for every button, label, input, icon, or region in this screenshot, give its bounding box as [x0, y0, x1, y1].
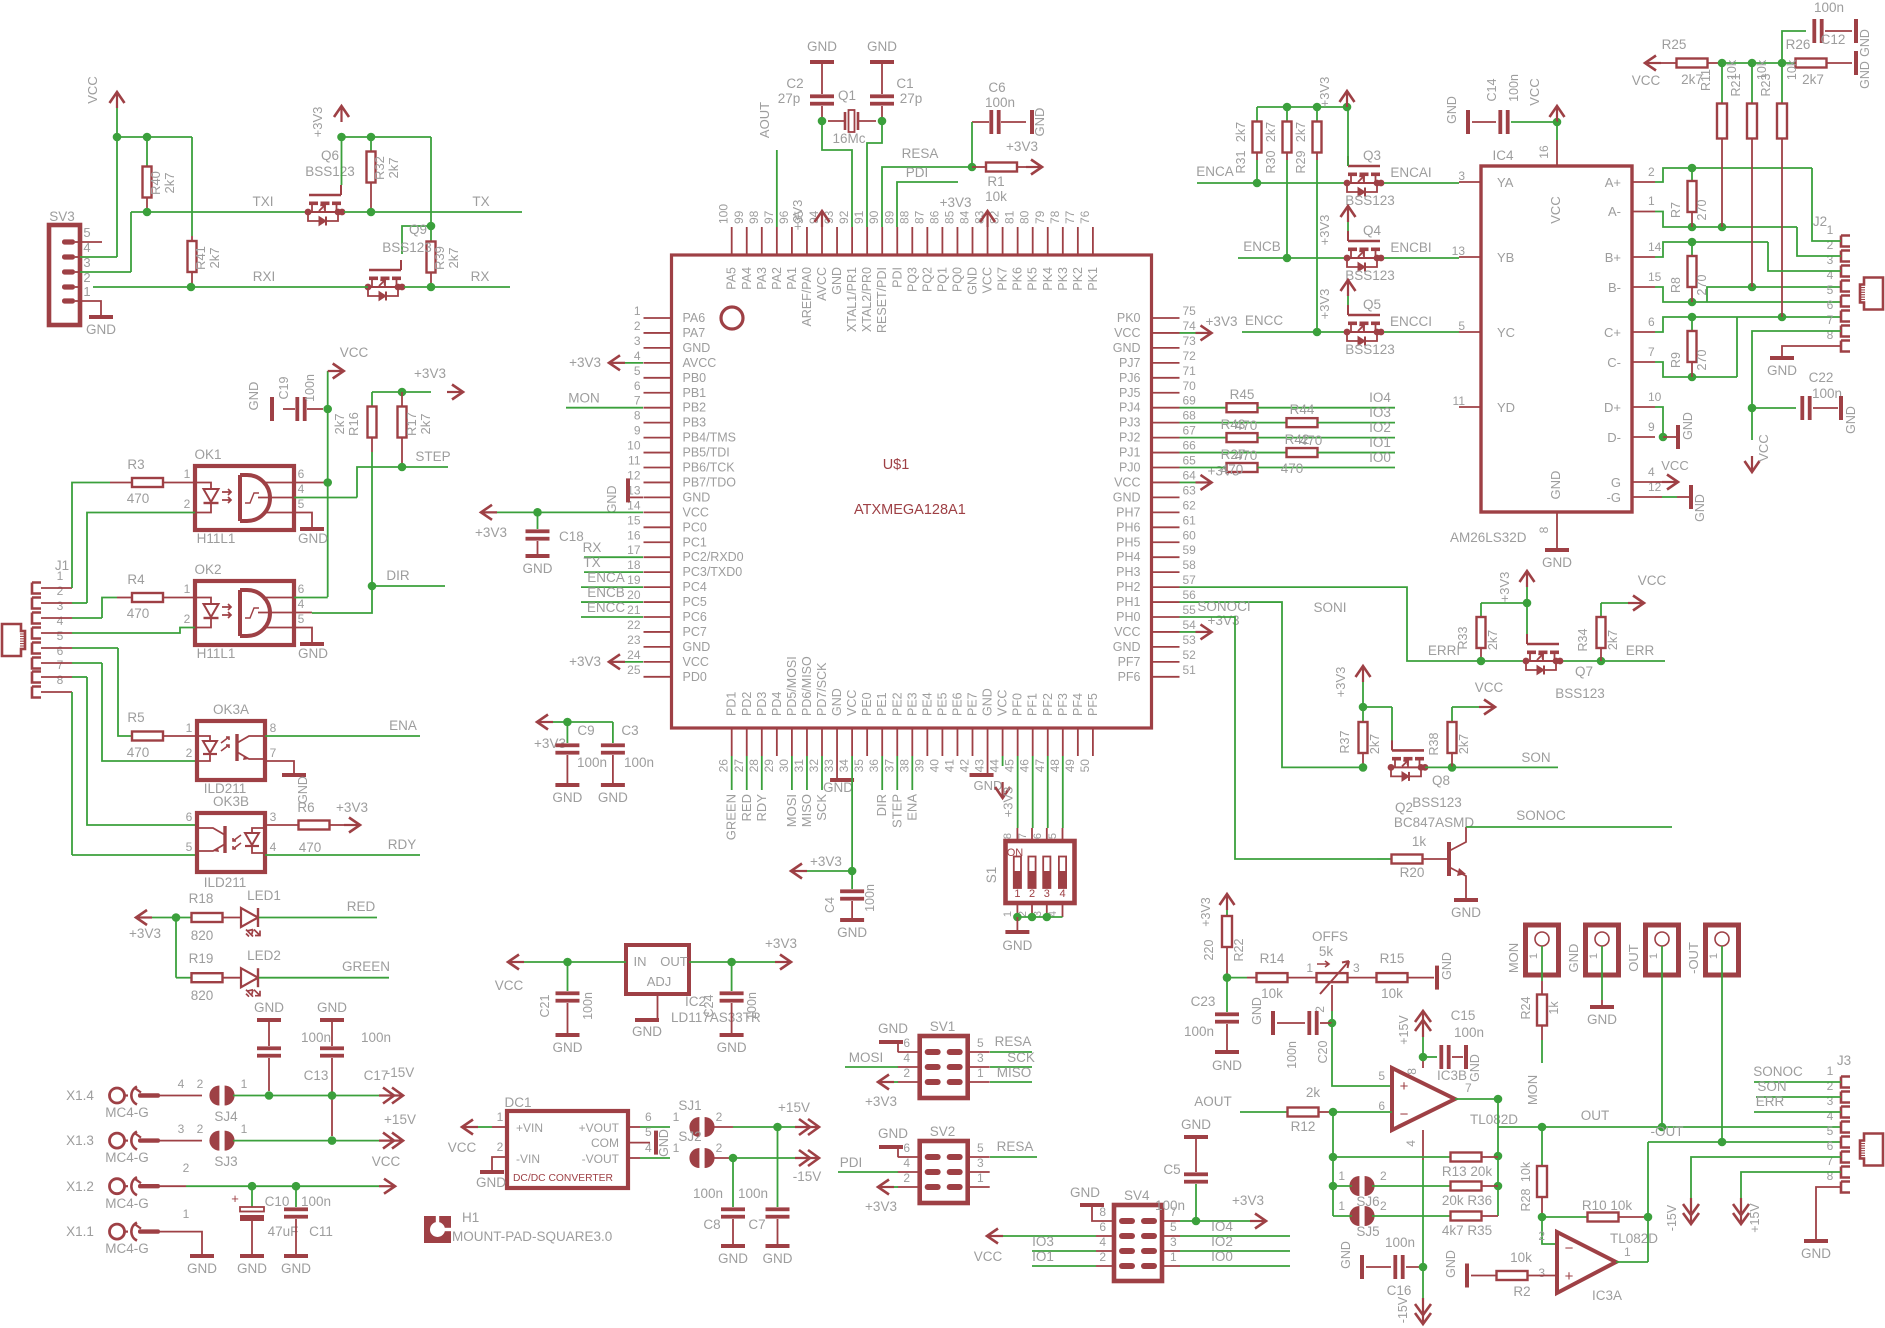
svg-text:47uF: 47uF — [268, 1224, 299, 1239]
resistor R8 270 — [1669, 242, 1709, 302]
svg-text:R29: R29 — [1294, 150, 1308, 173]
svg-text:MOUNT-PAD-SQUARE3.0: MOUNT-PAD-SQUARE3.0 — [452, 1229, 612, 1244]
wire DC1 pin1 VCC — [462, 1110, 507, 1127]
IC4 pin16 VCC — [1553, 118, 1562, 166]
svg-text:C8: C8 — [703, 1217, 720, 1232]
svg-text:8: 8 — [634, 409, 641, 423]
svg-text:PQ3: PQ3 — [905, 267, 919, 292]
jumper SJ6 — [1333, 1169, 1450, 1209]
wire Q4 gate — [1347, 222, 1349, 241]
net ENCA wire — [1196, 164, 1347, 187]
svg-text:3: 3 — [1458, 169, 1465, 183]
svg-text:7: 7 — [1017, 833, 1029, 839]
svg-text:22: 22 — [627, 618, 641, 632]
transistor Q9 BSS123 — [365, 222, 432, 301]
svg-text:PE3: PE3 — [905, 692, 919, 716]
net IO4 SV4 — [1180, 1219, 1290, 1236]
wire J1 pin6 — [41, 663, 197, 761]
ground R2 — [1444, 1250, 1467, 1287]
svg-text:8: 8 — [1537, 526, 1551, 533]
svg-text:IO1: IO1 — [1032, 1249, 1054, 1264]
capacitor C16 100n — [1366, 1235, 1427, 1298]
wire Q9 gate elbow — [402, 226, 431, 254]
svg-text:7: 7 — [1465, 1081, 1472, 1095]
svg-text:100n: 100n — [1454, 1025, 1484, 1040]
svg-text:2k7: 2k7 — [1802, 72, 1824, 87]
wire fb column — [1329, 1112, 1338, 1216]
net ENCB wire — [1238, 239, 1347, 262]
svg-text:GND: GND — [763, 1251, 793, 1266]
svg-text:70: 70 — [1183, 379, 1197, 393]
wire pin47 to S1 — [1047, 756, 1049, 828]
svg-text:+3V3: +3V3 — [129, 926, 161, 941]
svg-text:3: 3 — [977, 1156, 984, 1170]
svg-text:2: 2 — [1029, 888, 1035, 900]
svg-text:GND: GND — [878, 1126, 908, 1141]
net SONOCI — [1180, 599, 1378, 859]
wire J2 pin7 — [1748, 331, 1841, 412]
svg-text:PE6: PE6 — [950, 692, 964, 716]
svg-text:VCC: VCC — [845, 690, 859, 716]
svg-text:100n: 100n — [577, 755, 607, 770]
svg-text:ATXMEGA128A1: ATXMEGA128A1 — [854, 502, 966, 518]
resistor R39 — [427, 226, 462, 287]
svg-text:R23: R23 — [1759, 73, 1773, 96]
svg-text:+3V3: +3V3 — [865, 1094, 897, 1109]
svg-text:LED2: LED2 — [247, 948, 281, 963]
svg-text:+3V3: +3V3 — [810, 854, 842, 869]
node crystal right — [878, 117, 887, 126]
svg-text:2: 2 — [186, 746, 193, 760]
svg-text:C4: C4 — [823, 897, 837, 913]
svg-text:+3V3: +3V3 — [865, 1199, 897, 1214]
svg-text:9: 9 — [634, 424, 641, 438]
op-amp U$1 outline — [672, 255, 1152, 728]
svg-text:PE2: PE2 — [890, 692, 904, 716]
wire DC1 pin4 — [628, 1141, 670, 1158]
ground C9 — [552, 785, 582, 805]
svg-text:6: 6 — [1827, 1139, 1834, 1153]
svg-text:100n: 100n — [301, 1194, 331, 1209]
svg-text:2: 2 — [1099, 1250, 1106, 1264]
capacitor C1 27p — [870, 62, 922, 117]
VCC symbol top-left — [85, 76, 125, 108]
U$1 left pins — [627, 304, 744, 684]
resistor R25 2k7 — [1661, 37, 1722, 87]
svg-text:GND: GND — [298, 531, 328, 546]
svg-text:2k7: 2k7 — [207, 248, 222, 269]
+3V3 arrow pin74 — [1180, 314, 1238, 341]
svg-text:XTAL1/PR1: XTAL1/PR1 — [845, 267, 859, 332]
svg-text:86: 86 — [927, 210, 941, 224]
svg-text:10: 10 — [1648, 390, 1662, 404]
optocoupler OK1 H11L1 — [184, 447, 305, 546]
svg-text:8: 8 — [1099, 1205, 1106, 1219]
+3V3 arrow Q7 — [1497, 571, 1535, 602]
svg-text:PD6/MISO: PD6/MISO — [800, 656, 814, 716]
svg-text:ENCB: ENCB — [1243, 239, 1281, 254]
svg-text:17: 17 — [627, 543, 641, 557]
svg-text:RESA: RESA — [995, 1034, 1032, 1049]
svg-text:100n: 100n — [863, 884, 877, 912]
svg-text:31: 31 — [792, 759, 806, 773]
svg-text:71: 71 — [1183, 364, 1197, 378]
svg-text:GND: GND — [1032, 108, 1047, 137]
net ERRI — [1180, 587, 1666, 661]
net PDI SV2 — [838, 1155, 898, 1172]
svg-text:6: 6 — [1099, 1220, 1106, 1234]
net MON pin7 — [566, 391, 643, 408]
svg-text:PQ0: PQ0 — [950, 267, 964, 292]
svg-text:LED1: LED1 — [247, 888, 281, 903]
svg-text:+3V3: +3V3 — [310, 107, 325, 138]
svg-text:RESA: RESA — [997, 1139, 1034, 1154]
+3V3 arrow Q6 — [310, 106, 349, 137]
+3V3 arrow pin54 — [1180, 613, 1240, 640]
svg-text:PC2/RXD0: PC2/RXD0 — [683, 550, 744, 564]
resistor R23 10k — [1759, 59, 1799, 317]
svg-text:4: 4 — [645, 1141, 652, 1155]
svg-text:PB6/TCK: PB6/TCK — [683, 461, 736, 475]
svg-text:1: 1 — [183, 1207, 190, 1221]
svg-text:ENCC: ENCC — [1245, 313, 1284, 328]
svg-text:1: 1 — [83, 284, 90, 299]
svg-text:5: 5 — [1378, 1069, 1385, 1083]
svg-text:100n: 100n — [581, 992, 595, 1020]
svg-text:GND: GND — [830, 267, 844, 295]
svg-text:DIR: DIR — [386, 568, 410, 583]
net RESA wire — [902, 146, 972, 167]
net IO1 SV4 — [1032, 1249, 1096, 1266]
ground -G pin — [1655, 485, 1707, 522]
ground C22 — [1841, 396, 1858, 434]
svg-text:72: 72 — [1183, 349, 1197, 363]
svg-text:69: 69 — [1183, 394, 1197, 408]
svg-text:3: 3 — [57, 599, 64, 613]
svg-text:100n: 100n — [624, 755, 654, 770]
svg-text:IO3: IO3 — [1032, 1234, 1054, 1249]
svg-text:SJ2: SJ2 — [678, 1129, 701, 1144]
capacitor C14 100n — [1472, 74, 1557, 134]
svg-text:81: 81 — [1003, 210, 1017, 224]
svg-text:A-: A- — [1608, 204, 1621, 219]
+3V3 arrow Q8 — [1333, 666, 1371, 697]
svg-text:3: 3 — [270, 810, 277, 824]
svg-text:100n: 100n — [1812, 386, 1842, 401]
svg-text:GND: GND — [1445, 96, 1459, 124]
svg-text:1: 1 — [1588, 953, 1600, 959]
ground C19 — [246, 382, 272, 421]
svg-text:100n: 100n — [693, 1186, 723, 1201]
capacitor C20 100n — [1277, 1011, 1332, 1069]
wire OK1 pin4 STEP — [294, 497, 357, 499]
svg-text:PC1: PC1 — [683, 535, 707, 549]
+3V3 arrow R6 — [336, 800, 368, 833]
VCC arrow R38 — [1452, 680, 1503, 715]
svg-text:8: 8 — [1002, 833, 1014, 839]
wire pad OUT — [1661, 946, 1663, 1127]
svg-text:C1: C1 — [896, 76, 913, 91]
net IO3 SV4 — [1032, 1234, 1096, 1251]
svg-text:2: 2 — [903, 1066, 910, 1080]
svg-text:15: 15 — [1648, 270, 1662, 284]
net DIR pin36 — [874, 756, 889, 816]
svg-text:6: 6 — [186, 810, 193, 824]
svg-text:ENCA: ENCA — [587, 570, 625, 585]
svg-text:R19: R19 — [189, 951, 214, 966]
ground C7 — [763, 1246, 793, 1266]
net ENCC pin21 — [581, 600, 643, 617]
net ERR J3 — [1754, 1094, 1841, 1112]
transistor Q3 BSS123 — [1344, 148, 1395, 208]
svg-text:R38: R38 — [1427, 732, 1441, 755]
svg-text:VCC: VCC — [372, 1154, 401, 1169]
wire J2 pin8 gnd — [1767, 346, 1841, 378]
mount pad H1 — [424, 1210, 612, 1244]
svg-text:100n: 100n — [301, 1030, 331, 1045]
capacitor C3 100n — [601, 722, 654, 783]
svg-text:R12: R12 — [1291, 1119, 1316, 1134]
svg-text:GND: GND — [1468, 1054, 1482, 1082]
U$1 bottom pins — [717, 656, 1100, 772]
svg-text:10k: 10k — [1519, 1161, 1533, 1182]
svg-text:42: 42 — [958, 759, 972, 773]
svg-text:100: 100 — [717, 204, 731, 224]
wire Q8 gate — [1391, 707, 1393, 750]
SV3 pin5 stub — [80, 241, 102, 243]
VCC arrow IC4 — [1527, 78, 1565, 122]
svg-text:7: 7 — [1827, 313, 1834, 327]
svg-text:GND: GND — [246, 382, 261, 411]
svg-text:2k7: 2k7 — [1368, 734, 1382, 754]
svg-text:VCC: VCC — [85, 76, 100, 103]
resistor R35 4k7 — [1442, 1212, 1498, 1239]
svg-text:5: 5 — [634, 364, 641, 378]
wire TX segment — [344, 194, 522, 216]
svg-text:OUT: OUT — [660, 954, 688, 969]
svg-text:20: 20 — [627, 588, 641, 602]
wire J1 pin8 — [41, 692, 197, 855]
svg-text:C5: C5 — [1163, 1162, 1180, 1177]
+3V3 arrow SV4 — [1232, 1193, 1266, 1229]
svg-text:GND: GND — [1113, 640, 1141, 654]
svg-text:PF5: PF5 — [1086, 693, 1100, 716]
svg-text:RX: RX — [583, 540, 602, 555]
connector X1.3 MC4-G — [66, 1132, 160, 1165]
svg-text:PA5: PA5 — [725, 267, 739, 290]
svg-text:+3V3: +3V3 — [1006, 139, 1038, 154]
svg-text:VCC: VCC — [1475, 680, 1504, 695]
svg-text:PJ2: PJ2 — [1119, 431, 1141, 445]
svg-text:GND: GND — [981, 688, 995, 716]
svg-text:AVCC: AVCC — [683, 356, 717, 370]
svg-text:53: 53 — [1183, 633, 1197, 647]
svg-text:+3V3: +3V3 — [1317, 289, 1332, 320]
svg-text:C7: C7 — [748, 1217, 765, 1232]
svg-text:1: 1 — [241, 1077, 248, 1091]
svg-text:R41: R41 — [193, 246, 208, 270]
svg-text:BSS123: BSS123 — [1345, 193, 1395, 208]
jumper SJ2 — [673, 1129, 723, 1168]
svg-text:OFFS: OFFS — [1312, 929, 1348, 944]
S1 bottom stubs — [1002, 903, 1063, 917]
ground C15 — [1466, 1045, 1482, 1082]
svg-text:DC1: DC1 — [504, 1095, 531, 1110]
ground SV1 pin6 — [878, 1021, 908, 1052]
svg-text:GND: GND — [1339, 1241, 1353, 1269]
svg-text:SON: SON — [1521, 750, 1550, 765]
wire C+ line — [1655, 313, 1841, 332]
resistor R41 — [188, 236, 223, 287]
svg-text:VCC: VCC — [1548, 196, 1563, 223]
svg-text:2k7: 2k7 — [1486, 630, 1500, 650]
svg-text:R26: R26 — [1786, 37, 1811, 52]
wire SV4 pin7 +3V3 — [1180, 1217, 1250, 1226]
svg-text:32: 32 — [807, 759, 821, 773]
svg-text:Q2: Q2 — [1395, 800, 1413, 815]
node R16 rail — [372, 388, 431, 397]
svg-text:8: 8 — [1405, 1068, 1419, 1075]
svg-text:ENA: ENA — [904, 794, 919, 821]
svg-text:IO3: IO3 — [1369, 405, 1391, 420]
svg-text:G: G — [1611, 475, 1621, 490]
svg-text:Q7: Q7 — [1575, 664, 1593, 679]
svg-text:2: 2 — [197, 1122, 204, 1136]
svg-text:GND: GND — [683, 640, 711, 654]
svg-text:VCC: VCC — [1632, 73, 1661, 88]
resistor R21 10k — [1729, 59, 1769, 287]
svg-text:74: 74 — [1183, 319, 1197, 333]
svg-text:+3V3: +3V3 — [765, 936, 797, 951]
capacitor C10 47uF — [231, 1186, 298, 1254]
svg-text:GND: GND — [598, 790, 628, 805]
svg-text:3: 3 — [1170, 1235, 1177, 1249]
svg-text:SV1: SV1 — [930, 1019, 956, 1034]
svg-text:470: 470 — [299, 840, 322, 855]
wire rail to R41 — [191, 137, 193, 236]
svg-text:57: 57 — [1183, 573, 1197, 587]
capacitor C21 100n — [538, 962, 595, 1033]
net SON wire — [1425, 750, 1558, 767]
svg-text:2: 2 — [197, 1077, 204, 1091]
svg-text:PC3/TXD0: PC3/TXD0 — [683, 565, 743, 579]
net AOUT wire — [1194, 1094, 1287, 1112]
ground C13 — [254, 1000, 284, 1020]
svg-text:PB2: PB2 — [683, 401, 707, 415]
svg-text:39: 39 — [912, 759, 926, 773]
svg-text:46: 46 — [1018, 759, 1032, 773]
svg-text:63: 63 — [1183, 483, 1197, 497]
svg-text:D+: D+ — [1604, 400, 1621, 415]
svg-text:GND: GND — [298, 646, 328, 661]
svg-text:PB1: PB1 — [683, 386, 707, 400]
net RX pin17 — [583, 540, 643, 557]
svg-text:PA7: PA7 — [683, 326, 706, 340]
capacitor C24 100n — [702, 962, 759, 1033]
wire PDI from pin 89 — [897, 165, 958, 227]
svg-text:MOSI: MOSI — [849, 1050, 884, 1065]
transistor Q6 BSS123 — [305, 148, 355, 226]
svg-text:VCC: VCC — [1638, 573, 1667, 588]
wire DC1 pin6 — [628, 1110, 670, 1127]
svg-text:C24: C24 — [702, 994, 716, 1017]
svg-text:1: 1 — [1648, 953, 1660, 959]
svg-text:X1.4: X1.4 — [66, 1088, 94, 1103]
net RDY wire — [265, 837, 420, 855]
svg-text:PE4: PE4 — [920, 692, 934, 716]
svg-text:GND: GND — [605, 486, 619, 514]
wire IC3B pin4 — [1404, 1130, 1423, 1267]
svg-text:1: 1 — [1306, 961, 1313, 975]
wire Q5 gate — [1347, 296, 1349, 315]
pad OUT — [1626, 925, 1679, 975]
svg-text:GND: GND — [1181, 1117, 1211, 1132]
resistor R37 2k7 — [1338, 707, 1382, 767]
pad GND — [1566, 925, 1619, 975]
svg-text:OK3A: OK3A — [213, 702, 249, 717]
svg-text:+3V3: +3V3 — [1317, 77, 1332, 108]
wire OFFS wiper — [1313, 985, 1336, 1027]
svg-text:10k: 10k — [1510, 1250, 1532, 1265]
svg-text:VCC: VCC — [1114, 475, 1140, 489]
svg-text:15: 15 — [627, 513, 641, 527]
LED2 — [241, 948, 281, 997]
jumper SJ5 — [1333, 1199, 1450, 1239]
+15V arrow J3 — [1733, 1198, 1762, 1233]
svg-text:R9: R9 — [1669, 352, 1683, 368]
resistor R10 10k — [1582, 1198, 1652, 1222]
svg-text:5: 5 — [977, 1141, 984, 1155]
svg-text:65: 65 — [1183, 454, 1197, 468]
svg-text:PC0: PC0 — [683, 520, 707, 534]
svg-text:VCC: VCC — [981, 267, 995, 293]
svg-text:GND: GND — [1548, 471, 1563, 500]
svg-text:85: 85 — [942, 210, 956, 224]
+3V3 arrow SV1 — [865, 1075, 898, 1110]
wire pin5 feeder — [1707, 301, 1841, 303]
node Q7 rail — [1481, 587, 1531, 607]
svg-text:1: 1 — [1624, 1245, 1631, 1259]
wire VCC to IC2 — [508, 958, 626, 967]
svg-text:D-: D- — [1607, 430, 1621, 445]
svg-text:X1.1: X1.1 — [66, 1224, 94, 1239]
svg-text:YA: YA — [1497, 175, 1514, 190]
svg-text:J3: J3 — [1837, 1053, 1851, 1068]
svg-text:29: 29 — [762, 759, 776, 773]
ground C3 — [598, 785, 628, 805]
svg-text:SV4: SV4 — [1124, 1188, 1150, 1203]
wire VCC stem — [116, 108, 118, 137]
wire J1 pin4 — [41, 628, 195, 634]
svg-text:MOSI: MOSI — [784, 794, 799, 827]
net -15V wire — [233, 1091, 379, 1100]
ground C16 — [1339, 1241, 1362, 1279]
svg-text:6: 6 — [57, 644, 64, 658]
ground pad GND — [1587, 946, 1617, 1027]
svg-text:220: 220 — [1202, 940, 1216, 961]
net ENA pin38 — [904, 756, 919, 821]
svg-text:SJ4: SJ4 — [214, 1109, 238, 1124]
capacitor C17 100n — [320, 1020, 391, 1136]
svg-text:2k7: 2k7 — [418, 414, 433, 435]
svg-text:55: 55 — [1183, 603, 1197, 617]
svg-text:3: 3 — [1044, 888, 1050, 900]
wire J3 pin6 -15V — [1691, 1157, 1841, 1198]
svg-text:1: 1 — [1170, 1250, 1177, 1264]
svg-text:PD0: PD0 — [683, 670, 707, 684]
svg-text:1: 1 — [1648, 194, 1655, 208]
svg-text:R5: R5 — [127, 710, 144, 725]
